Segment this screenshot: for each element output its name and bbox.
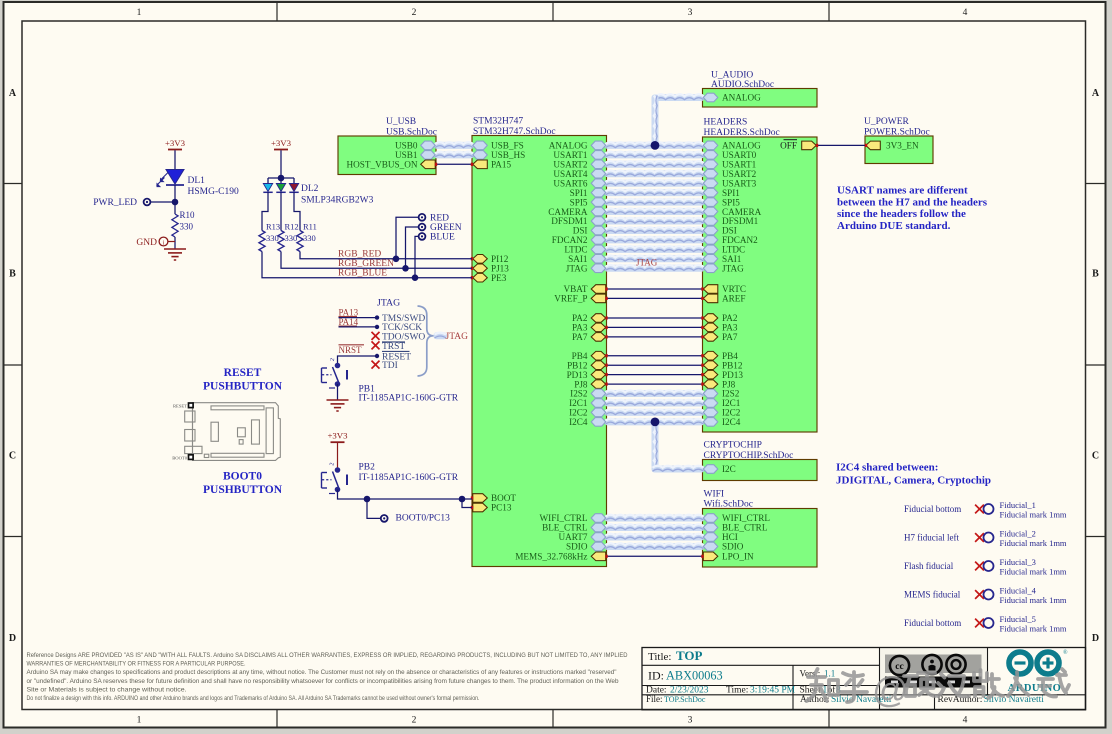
pin STM32 WIFI_CTRL [591, 514, 606, 523]
pin STM32 I2S2 [591, 389, 606, 398]
ground symbol (PB1) [327, 399, 349, 401]
pin HEADERS DSI [703, 226, 718, 235]
title block frame [642, 648, 1086, 710]
wire to GREEN port [406, 227, 419, 268]
svg-text:JTAG: JTAG [636, 257, 658, 267]
pin STM32 ANALOG [591, 141, 606, 150]
pin HEADERS PJ8 [703, 380, 718, 389]
pin STM32 SDIO [591, 542, 606, 551]
pin HEADERS LTDC [703, 245, 718, 254]
svg-text:PC13: PC13 [491, 503, 512, 513]
svg-text:330: 330 [285, 233, 298, 243]
svg-text:Fiducial mark 1mm: Fiducial mark 1mm [1000, 624, 1067, 634]
pin STM32 SPI1 [591, 188, 606, 197]
bus harness STM32 to WIFI [605, 515, 705, 522]
svg-text:Fiducial mark 1mm: Fiducial mark 1mm [1000, 595, 1067, 605]
svg-text:PA13: PA13 [339, 307, 359, 317]
pin HEADERS USART3 [703, 179, 718, 188]
svg-text:AUDIO.SchDoc: AUDIO.SchDoc [711, 80, 774, 90]
svg-text:Do not finalize a design with: Do not finalize a design with this info.… [27, 695, 480, 702]
svg-text:330: 330 [180, 222, 194, 232]
svg-text:I2S2: I2S2 [722, 389, 740, 399]
pin STM32 I2C4 [591, 418, 606, 427]
sheet symbol CRYPTOCHIP CRYPTOCHIP.SchDoc [703, 460, 818, 481]
bus harness U_AUDIO ANALOG drop [655, 94, 705, 101]
svg-text:JTAG: JTAG [377, 298, 400, 309]
svg-text:ANALOG: ANALOG [722, 93, 761, 103]
wire NRST to RESET [338, 356, 378, 366]
bus harness STM32 to HEADERS (I2S2..I2C4) [605, 390, 705, 397]
pin HEADERS OFF (active low) [802, 141, 817, 150]
pin STM32 PB4 [591, 351, 606, 360]
wire DL1 to R10 [174, 185, 176, 214]
svg-text:A: A [9, 88, 17, 99]
svg-text:RGB_GREEN: RGB_GREEN [338, 259, 394, 269]
wire +3V3 to DL2 anodes [280, 150, 282, 183]
junction DL2 anode [278, 175, 285, 182]
resistor R10 [172, 214, 178, 237]
pin STM32 FDCAN2 [591, 236, 606, 245]
pin WIFI SDIO [703, 542, 718, 551]
pin U_USB HOST_VBUS_ON [421, 160, 436, 169]
svg-text:USB.SchDoc: USB.SchDoc [386, 128, 437, 138]
pin WIFI BLE_CTRL [703, 523, 718, 532]
svg-text:2: 2 [412, 716, 417, 726]
svg-text:PI12: PI12 [491, 254, 509, 264]
svg-text:PB2: PB2 [359, 463, 376, 473]
pin HEADERS PA2 [703, 314, 718, 323]
pin HEADERS PD13 [703, 370, 718, 379]
svg-text:Fiducial mark 1mm: Fiducial mark 1mm [1000, 567, 1067, 577]
sheet symbol WIFI Wifi.SchDoc [703, 509, 818, 568]
svg-text:WIFI: WIFI [704, 490, 725, 500]
svg-text:1: 1 [137, 8, 142, 18]
svg-text:4: 4 [963, 716, 968, 726]
junction BOOT branch [364, 496, 371, 503]
wire MEMS_32.768kHz to LPO_IN [607, 555, 703, 557]
Creative Commons license badge [881, 649, 987, 695]
wire PB1 to GND [337, 384, 339, 400]
svg-text:PA3: PA3 [572, 323, 588, 333]
wire PA14 to TCK/SCK [339, 326, 378, 328]
svg-text:A: A [1092, 88, 1100, 99]
svg-text:Arduino SA may make changes to: Arduino SA may make changes to specifica… [27, 669, 617, 676]
svg-text:®: ® [1063, 649, 1068, 656]
wire to RED port [396, 217, 419, 258]
wire +3V3 to DL1 [174, 150, 176, 169]
pin STM32 DSI [591, 226, 606, 235]
wire to BLUE port [415, 236, 419, 277]
svg-text:TDI: TDI [382, 361, 398, 371]
svg-text:I2C4: I2C4 [722, 417, 741, 427]
LED DL2 SMLP34RGB2W3 (blue/green/red chips) [263, 184, 272, 192]
junction on I2C4 bus [651, 418, 660, 427]
svg-text:2/23/2023: 2/23/2023 [670, 685, 709, 695]
pin HEADERS I2C4 [703, 418, 718, 427]
svg-text:IT-1185AP1C-160G-GTR: IT-1185AP1C-160G-GTR [359, 473, 459, 483]
svg-text:I2C: I2C [722, 464, 736, 474]
pin STM32 USART6 [591, 179, 606, 188]
svg-text:3:19:45 PM: 3:19:45 PM [750, 685, 796, 695]
pin STM32 DFSDM1 [591, 217, 606, 226]
pin HEADERS PA7 [703, 333, 718, 342]
svg-text:MEMS_32.768kHz: MEMS_32.768kHz [515, 552, 587, 562]
svg-text:D: D [9, 633, 16, 644]
pin U_USB USB1 [421, 151, 436, 160]
svg-text:JTAG: JTAG [446, 332, 469, 342]
pin STM32 BOOT [473, 494, 488, 503]
bus harness STM32 to HEADERS (ANALOG..JTAG) [605, 142, 705, 149]
svg-text:HEADERS.SchDoc: HEADERS.SchDoc [704, 128, 780, 138]
svg-text:Fiducial mark 1mm: Fiducial mark 1mm [1000, 510, 1067, 520]
svg-text:SDIO: SDIO [566, 542, 588, 552]
port RED [419, 214, 426, 221]
svg-text:AREF: AREF [722, 294, 746, 304]
pin STM32 PA7 [591, 333, 606, 342]
pin STM32 USART1 [591, 151, 606, 160]
svg-text:PA7: PA7 [572, 332, 588, 342]
pin STM32 I2C2 [591, 408, 606, 417]
pin HEADERS SPI5 [703, 198, 718, 207]
bus harness I2C4 to CRYPTOCHIP [652, 422, 659, 469]
wire PD13 [607, 374, 703, 376]
svg-text:HCI: HCI [722, 532, 738, 542]
svg-text:VREF_P: VREF_P [554, 294, 587, 304]
resistor R13 [259, 231, 265, 252]
svg-text:PA15: PA15 [491, 160, 511, 170]
wire to BOOT0/PC13 port [367, 499, 381, 518]
svg-text:R10: R10 [180, 210, 196, 220]
pin STM32 PA3 [591, 323, 606, 332]
pin WIFI LPO_IN [703, 552, 718, 561]
svg-text:C: C [1092, 451, 1099, 462]
pin HEADERS PB4 [703, 351, 718, 360]
pin STM32 BLE_CTRL [591, 523, 606, 532]
svg-text:WIFI_CTRL: WIFI_CTRL [540, 513, 588, 523]
wire RGB_GREEN net [281, 252, 472, 269]
svg-text:PD13: PD13 [567, 370, 588, 380]
pin HEADERS VRTC [703, 285, 718, 294]
svg-text:TOP: TOP [676, 648, 703, 663]
svg-text:PB4: PB4 [572, 351, 588, 361]
svg-text:2: 2 [412, 8, 417, 18]
svg-text:C: C [9, 451, 16, 462]
pin HEADERS USART0 [703, 151, 718, 160]
svg-text:HOST_VBUS_ON: HOST_VBUS_ON [347, 160, 418, 170]
pin STM32 PD13 [591, 370, 606, 379]
svg-text:TOP.SchDoc: TOP.SchDoc [664, 695, 706, 704]
harness brace [418, 306, 434, 376]
svg-text:CRYPTOCHIP.SchDoc: CRYPTOCHIP.SchDoc [704, 451, 794, 461]
svg-text:+3V3: +3V3 [165, 138, 186, 148]
pin STM32 VBAT [591, 285, 606, 294]
pin U_USB USB0 [421, 141, 436, 150]
pin HEADERS I2C2 [703, 408, 718, 417]
pin HEADERS SPI1 [703, 188, 718, 197]
svg-text:Fiducial_4: Fiducial_4 [1000, 585, 1037, 595]
ground symbol (DL1) [164, 248, 186, 250]
pin HEADERS DFSDM1 [703, 217, 718, 226]
pin HEADERS ANALOG [703, 141, 718, 150]
pin HEADERS CAMERA [703, 207, 718, 216]
svg-text:B: B [9, 269, 16, 280]
svg-text:Arduino DUE standard.: Arduino DUE standard. [837, 220, 951, 232]
svg-text:Fiducial_2: Fiducial_2 [1000, 528, 1036, 538]
wire RGB_BLUE net [262, 252, 472, 278]
pin HEADERS SAI1 [703, 255, 718, 264]
svg-text:DL2: DL2 [301, 184, 319, 194]
svg-text:Time:: Time: [726, 685, 748, 695]
svg-text:4: 4 [963, 8, 968, 18]
Arduino logo [1009, 652, 1031, 674]
svg-text:PD13: PD13 [722, 370, 743, 380]
sheet symbol U_AUDIO AUDIO.SchDoc [703, 89, 818, 108]
pin STM32 PJ8 [591, 380, 606, 389]
pin U_AUDIO ANALOG [703, 93, 718, 102]
sheet symbol HEADERS HEADERS.SchDoc [703, 137, 818, 432]
pin HEADERS USART1 [703, 160, 718, 169]
svg-text:USART names are different: USART names are different [837, 185, 968, 197]
svg-text:LPO_IN: LPO_IN [722, 552, 754, 562]
svg-text:CRYPTOCHIP: CRYPTOCHIP [704, 441, 762, 451]
svg-text:POWER.SchDoc: POWER.SchDoc [864, 128, 930, 138]
pin WIFI WIFI_CTRL [703, 514, 718, 523]
pin STM32 UART7 [591, 533, 606, 542]
board BOOT0 pad [189, 455, 194, 460]
svg-text:JTAG: JTAG [566, 263, 588, 273]
pin HEADERS PA3 [703, 323, 718, 332]
svg-text:BLUE: BLUE [430, 233, 455, 243]
LED DL1 HSMG-C190 [166, 170, 184, 185]
pin STM32 SAI1 [591, 255, 606, 264]
svg-text:PA14: PA14 [339, 317, 359, 327]
svg-text:OFF: OFF [780, 141, 797, 151]
wire VREF_P-AREF [607, 297, 703, 299]
svg-text:TRST: TRST [382, 342, 405, 352]
svg-text:File:: File: [646, 694, 663, 704]
svg-text:BOOT: BOOT [491, 493, 516, 503]
pin STM32 USB_HS [473, 151, 488, 160]
svg-text:Fiducial bottom: Fiducial bottom [904, 618, 961, 628]
svg-text:HSMG-C190: HSMG-C190 [188, 187, 239, 197]
bus harness U_USB to STM32 (USB0/USB1) [434, 142, 474, 149]
pin STM32 CAMERA [591, 207, 606, 216]
resistor R11 [297, 231, 303, 252]
wire +3V3 to PB2 [337, 443, 339, 470]
pin STM32 PA15 [473, 160, 488, 169]
port GREEN [419, 224, 426, 231]
sheet symbol U1 STM32H747 STM32H747.SchDoc [472, 136, 607, 567]
svg-text:NRST: NRST [339, 345, 363, 355]
svg-text:U_POWER: U_POWER [864, 117, 910, 127]
svg-text:JTAG: JTAG [722, 263, 744, 273]
svg-text:ID:: ID: [648, 669, 664, 683]
wire OFF to 3V3_EN [817, 144, 866, 146]
pushbutton PB1 IT-1185AP1C-160G-GTR [335, 363, 341, 369]
pin STM32 USART4 [591, 169, 606, 178]
svg-text:Fiducial_5: Fiducial_5 [1000, 614, 1036, 624]
svg-text:I2C2: I2C2 [722, 408, 741, 418]
svg-text:330: 330 [303, 233, 316, 243]
pin WIFI HCI [703, 533, 718, 542]
wire PB12 [607, 364, 703, 366]
pin HEADERS USART2 [703, 169, 718, 178]
sheet symbol U_POWER POWER.SchDoc [865, 136, 933, 164]
pin HEADERS FDCAN2 [703, 236, 718, 245]
wire VBAT-VRTC [607, 288, 703, 290]
svg-text:3V3_EN: 3V3_EN [886, 141, 919, 151]
pin STM32 PE3 [473, 273, 488, 282]
port BLUE [419, 233, 426, 240]
svg-text:STM32H747.SchDoc: STM32H747.SchDoc [473, 127, 556, 137]
wire PJ8 [607, 383, 703, 385]
svg-text:JDIGITAL, Camera, Cryptochip: JDIGITAL, Camera, Cryptochip [836, 475, 991, 487]
svg-text:BLE_CTRL: BLE_CTRL [542, 523, 588, 533]
junction PWR_LED node [172, 199, 179, 206]
svg-text:BLE_CTRL: BLE_CTRL [722, 523, 768, 533]
svg-text:PUSHBUTTON: PUSHBUTTON [203, 484, 283, 496]
pin U_POWER 3V3_EN [866, 141, 881, 150]
no connect X TRST [372, 341, 380, 349]
svg-text:Fiducial bottom: Fiducial bottom [904, 504, 961, 514]
svg-text:Site or Materials is subject t: Site or Materials is subject to change w… [27, 686, 187, 693]
pin STM32 PI12 [473, 255, 488, 264]
pin STM32 VREF_P [591, 294, 606, 303]
svg-text:RGB_RED: RGB_RED [338, 250, 381, 260]
pin STM32 PA2 [591, 314, 606, 323]
no connect X TDO/SWO [372, 332, 380, 340]
wire PB4 [607, 355, 703, 357]
svg-text:I2C2: I2C2 [569, 408, 588, 418]
junction PC13 branch [459, 496, 466, 503]
svg-text:BOOT0/PC13: BOOT0/PC13 [396, 514, 451, 524]
svg-text:BOOT0: BOOT0 [223, 471, 262, 483]
wire PB2 to BOOT pin [338, 490, 473, 500]
svg-text:WARRANTIES OF MERCHANTABILITY: WARRANTIES OF MERCHANTABILITY OR FITNESS… [27, 660, 246, 667]
wire PA13 to TMS/SWD [339, 317, 378, 319]
frame column/row tick marks [276, 2, 278, 21]
watermark zhihu [807, 669, 1070, 710]
svg-text:HEADERS: HEADERS [704, 118, 748, 128]
svg-text:SDIO: SDIO [722, 542, 744, 552]
svg-text:I2C4: I2C4 [569, 417, 588, 427]
svg-text:3: 3 [688, 716, 693, 726]
pushbutton PB2 IT-1185AP1C-160G-GTR [335, 467, 341, 473]
svg-text:Reference Designs ARE PROVIDED: Reference Designs ARE PROVIDED "AS IS" A… [27, 652, 628, 659]
wire DL2 cathodes to resistors [262, 192, 268, 230]
pin STM32 JTAG [591, 264, 606, 273]
svg-text:GND: GND [136, 238, 157, 248]
svg-text:RESET: RESET [173, 403, 187, 408]
svg-text:Title:: Title: [648, 651, 671, 663]
pin STM32 PJ13 [473, 264, 488, 273]
svg-text:or "undefined". Arduino SA res: or "undefined". Arduino SA reserves thes… [27, 678, 620, 685]
pin HEADERS AREF [703, 294, 718, 303]
wire HOST_VBUS_ON to PA15 [436, 163, 472, 165]
pin STM32 PB12 [591, 361, 606, 370]
svg-text:SMLP34RGB2W3: SMLP34RGB2W3 [301, 196, 374, 206]
junction RGB_GREEN [402, 265, 409, 272]
svg-text:TDO/SWO: TDO/SWO [382, 332, 425, 342]
pin STM32 USB_FS [473, 141, 488, 150]
svg-text:+3V3: +3V3 [327, 431, 348, 441]
svg-text:3: 3 [688, 8, 693, 18]
svg-text:D: D [1092, 633, 1099, 644]
wire RGB_RED net [300, 252, 472, 259]
red connection markers on pin wires [605, 287, 607, 290]
svg-text:ABX00063: ABX00063 [666, 669, 723, 683]
wire PC13 jog [462, 499, 472, 508]
board outline drawing (GIGA board) [193, 403, 281, 461]
svg-text:STM32H747: STM32H747 [473, 117, 523, 127]
CC badge black band [885, 677, 982, 688]
svg-text:Fiducial_1: Fiducial_1 [1000, 500, 1036, 510]
svg-text:PB4: PB4 [722, 351, 738, 361]
junction RGB_BLUE [412, 274, 419, 281]
svg-text:U_USB: U_USB [386, 117, 416, 127]
pin STM32 I2C1 [591, 399, 606, 408]
svg-text:RESET: RESET [224, 367, 262, 379]
svg-text:PA7: PA7 [722, 332, 738, 342]
svg-text:i: i [163, 240, 165, 247]
svg-text:IT-1185AP1C-160G-GTR: IT-1185AP1C-160G-GTR [359, 394, 459, 404]
svg-text:UART7: UART7 [558, 532, 587, 542]
wire R10 to GND [174, 237, 176, 249]
pin STM32 SPI5 [591, 198, 606, 207]
wire PA7 [607, 336, 703, 338]
svg-text:H7 fiducial left: H7 fiducial left [904, 533, 959, 543]
svg-text:+3V3: +3V3 [271, 138, 292, 148]
svg-text:RGB_BLUE: RGB_BLUE [338, 269, 387, 279]
svg-text:since the headers follow the: since the headers follow the [837, 208, 966, 220]
svg-text:PA3: PA3 [722, 323, 738, 333]
pin HEADERS PB12 [703, 361, 718, 370]
no connect X TDI [372, 361, 380, 369]
board RESET pad [189, 403, 194, 408]
pin STM32 LTDC [591, 245, 606, 254]
svg-text:BOOT0: BOOT0 [172, 455, 188, 460]
port BOOT0/PC13 [381, 515, 388, 522]
svg-text:1: 1 [137, 716, 142, 726]
svg-text:Fiducial mark 1mm: Fiducial mark 1mm [1000, 538, 1067, 548]
svg-text:330: 330 [266, 233, 279, 243]
svg-text:Wifi.SchDoc: Wifi.SchDoc [704, 499, 753, 510]
junction RGB_RED [393, 255, 400, 262]
harness bus stub JTAG [434, 332, 448, 339]
junction on ANALOG bus [651, 141, 660, 150]
svg-text:Fiducial_3: Fiducial_3 [1000, 557, 1036, 567]
svg-text:R12: R12 [285, 222, 299, 232]
pin HEADERS JTAG [703, 264, 718, 273]
svg-text:I2S2: I2S2 [570, 389, 588, 399]
svg-text:PUSHBUTTON: PUSHBUTTON [203, 381, 283, 393]
pin STM32 USART2 [591, 160, 606, 169]
sheet symbol U_USB USB.SchDoc [338, 136, 436, 175]
svg-text:DL1: DL1 [188, 176, 206, 186]
svg-text:WIFI_CTRL: WIFI_CTRL [722, 513, 770, 523]
wire PA2 [607, 317, 703, 319]
svg-text:MEMS fiducial: MEMS fiducial [904, 590, 961, 600]
resistor R12 [278, 231, 284, 252]
pin STM32 MEMS_32.768kHz [591, 552, 606, 561]
pin CRYPTOCHIP I2C [703, 465, 718, 474]
svg-text:Flash fiducial: Flash fiducial [904, 561, 954, 571]
svg-text:R13: R13 [266, 222, 280, 232]
wire PWR_LED [151, 201, 176, 203]
pin STM32 PC13 [473, 503, 488, 512]
svg-text:RED: RED [430, 214, 449, 224]
svg-text:PWR_LED: PWR_LED [93, 198, 137, 208]
